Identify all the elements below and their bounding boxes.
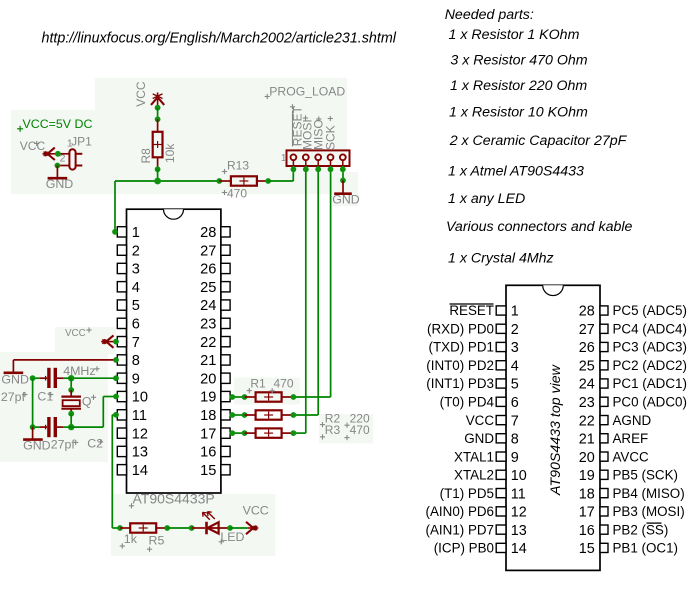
svg-text:13: 13 [511, 523, 527, 539]
svg-text:10: 10 [511, 468, 527, 484]
svg-text:AT90S4433 top view: AT90S4433 top view [548, 364, 564, 496]
svg-text:Various connectors and kable: Various connectors and kable [446, 219, 633, 235]
svg-text:PB5 (SCK): PB5 (SCK) [613, 468, 678, 483]
svg-text:18: 18 [579, 486, 595, 502]
svg-text:15: 15 [579, 541, 595, 557]
svg-text:GND: GND [464, 431, 494, 446]
svg-text:27pf: 27pf [1, 390, 26, 404]
svg-text:1 x Crystal 4Mhz: 1 x Crystal 4Mhz [448, 250, 554, 266]
svg-text:R13: R13 [227, 159, 249, 173]
svg-text:(AIN1) PD7: (AIN1) PD7 [426, 522, 494, 537]
svg-text:14: 14 [511, 541, 527, 557]
svg-text:PC4 (ADC4): PC4 (ADC4) [613, 322, 687, 337]
svg-text:21: 21 [579, 432, 595, 448]
svg-text:(T1) PD5: (T1) PD5 [440, 486, 494, 501]
svg-text:AVCC: AVCC [613, 449, 650, 464]
svg-text:27: 27 [579, 322, 595, 338]
svg-text:22: 22 [579, 413, 595, 429]
svg-text:1k: 1k [124, 532, 138, 546]
svg-text:(AIN0) PD6: (AIN0) PD6 [426, 504, 494, 519]
svg-text:1 x Atmel AT90S4433: 1 x Atmel AT90S4433 [448, 164, 584, 180]
svg-text:5: 5 [132, 298, 140, 314]
svg-text:VCC: VCC [466, 413, 495, 428]
svg-text:24: 24 [579, 377, 595, 393]
svg-text:26: 26 [200, 262, 216, 278]
svg-text:PB1 (OC1): PB1 (OC1) [613, 541, 678, 556]
svg-text:23: 23 [200, 317, 216, 333]
svg-text:7: 7 [132, 335, 140, 351]
svg-text:PC3 (ADC3): PC3 (ADC3) [613, 340, 687, 355]
svg-text:470: 470 [274, 377, 294, 391]
svg-text:15: 15 [200, 463, 216, 479]
svg-text:5: 5 [511, 377, 519, 393]
svg-text:470: 470 [350, 423, 370, 437]
svg-text:11: 11 [511, 486, 526, 502]
svg-text:(INT0) PD2: (INT0) PD2 [426, 358, 494, 373]
svg-text:20: 20 [579, 450, 595, 466]
svg-text:12: 12 [511, 505, 527, 521]
svg-text:16: 16 [579, 523, 595, 539]
svg-text:GND: GND [332, 192, 360, 206]
svg-text:R8: R8 [139, 148, 153, 164]
svg-text:AT90S4433P: AT90S4433P [133, 491, 215, 507]
svg-text:PB2 (SS): PB2 (SS) [613, 522, 669, 537]
svg-text:7: 7 [511, 413, 519, 429]
svg-text:4: 4 [511, 359, 519, 375]
svg-text:16: 16 [200, 445, 216, 461]
svg-text:9: 9 [511, 450, 519, 466]
svg-text:3: 3 [511, 340, 519, 356]
svg-text:25: 25 [579, 359, 595, 375]
svg-text:2 x Ceramic Capacitor 27pF: 2 x Ceramic Capacitor 27pF [449, 133, 628, 149]
svg-text:21: 21 [200, 353, 216, 369]
svg-text:XTAL1: XTAL1 [454, 449, 494, 464]
svg-text:LED: LED [220, 530, 244, 544]
svg-text:25: 25 [200, 280, 216, 296]
svg-text:AGND: AGND [613, 413, 652, 428]
svg-text:8: 8 [132, 353, 140, 369]
svg-text:PC5 (ADC5): PC5 (ADC5) [613, 303, 687, 318]
svg-text:RESET: RESET [449, 303, 494, 318]
svg-text:20: 20 [200, 371, 216, 387]
svg-text:R5: R5 [149, 533, 165, 547]
svg-text:10: 10 [132, 390, 148, 406]
svg-text:12: 12 [132, 426, 148, 442]
svg-text:PB4 (MISO): PB4 (MISO) [613, 486, 685, 501]
svg-text:3: 3 [132, 262, 140, 278]
svg-text:SCK: SCK [324, 125, 338, 150]
svg-text:1: 1 [132, 225, 140, 241]
svg-text:GND: GND [1, 373, 29, 387]
svg-text:9: 9 [132, 371, 140, 387]
svg-text:(INT1) PD3: (INT1) PD3 [426, 376, 494, 391]
svg-text:18: 18 [200, 408, 216, 424]
svg-text:14: 14 [132, 463, 148, 479]
svg-text:GND: GND [46, 177, 74, 191]
svg-text:VCC=5V DC: VCC=5V DC [23, 117, 93, 131]
svg-text:11: 11 [132, 408, 147, 424]
svg-text:JP1: JP1 [71, 134, 92, 148]
svg-text:(ICP) PB0: (ICP) PB0 [434, 541, 494, 556]
svg-text:28: 28 [579, 304, 595, 320]
svg-text:R3: R3 [325, 423, 341, 437]
svg-text:23: 23 [579, 395, 595, 411]
svg-text:4MHz: 4MHz [63, 364, 95, 378]
svg-text:22: 22 [200, 335, 216, 351]
svg-text:2: 2 [511, 322, 519, 338]
svg-text:26: 26 [579, 340, 595, 356]
svg-text:2: 2 [132, 243, 140, 259]
svg-text:27pf: 27pf [51, 438, 76, 452]
svg-text:1 x Resistor 1 KOhm: 1 x Resistor 1 KOhm [449, 27, 580, 43]
svg-text:3 x Resistor 470 Ohm: 3 x Resistor 470 Ohm [450, 53, 587, 69]
svg-text:XTAL2: XTAL2 [454, 468, 494, 483]
svg-text:6: 6 [132, 317, 140, 333]
svg-text:VCC: VCC [134, 81, 148, 107]
svg-text:AREF: AREF [613, 431, 649, 446]
svg-text:17: 17 [200, 426, 216, 442]
svg-text:24: 24 [200, 298, 216, 314]
svg-text:470: 470 [227, 186, 247, 200]
svg-text:10k: 10k [163, 143, 177, 163]
svg-text:13: 13 [132, 445, 148, 461]
svg-text:28: 28 [200, 225, 216, 241]
svg-text:PC0 (ADC0): PC0 (ADC0) [613, 395, 687, 410]
svg-text:17: 17 [579, 505, 595, 521]
svg-text:6: 6 [511, 395, 519, 411]
svg-text:GND: GND [23, 438, 51, 452]
svg-text:PC1 (ADC1): PC1 (ADC1) [613, 376, 687, 391]
svg-text:1 x any LED: 1 x any LED [448, 191, 525, 207]
svg-text:(T0) PD4: (T0) PD4 [440, 395, 495, 410]
svg-text:Q: Q [82, 395, 92, 409]
svg-text:1 x Resistor 10 KOhm: 1 x Resistor 10 KOhm [449, 105, 588, 121]
svg-text:27: 27 [200, 243, 216, 259]
svg-text:8: 8 [511, 432, 519, 448]
svg-text:VCC: VCC [65, 328, 86, 339]
svg-text:PB3 (MOSI): PB3 (MOSI) [613, 504, 685, 519]
svg-text:(TXD) PD1: (TXD) PD1 [429, 340, 494, 355]
svg-text:19: 19 [579, 468, 595, 484]
svg-text:1: 1 [281, 152, 287, 164]
svg-text:PROG_LOAD: PROG_LOAD [269, 84, 345, 98]
svg-text:VCC: VCC [243, 504, 269, 518]
svg-text:1 x Resistor 220 Ohm: 1 x Resistor 220 Ohm [450, 78, 587, 94]
svg-text:R1: R1 [250, 377, 266, 391]
svg-text:Needed parts:: Needed parts: [445, 7, 534, 23]
svg-text:(RXD) PD0: (RXD) PD0 [427, 322, 494, 337]
svg-text:1: 1 [511, 304, 519, 320]
svg-text:VCC: VCC [20, 139, 46, 153]
svg-text:4: 4 [132, 280, 140, 296]
svg-text:PC2 (ADC2): PC2 (ADC2) [613, 358, 687, 373]
svg-text:http://linuxfocus.org/English/: http://linuxfocus.org/English/March2002/… [42, 31, 397, 47]
svg-text:19: 19 [200, 390, 216, 406]
